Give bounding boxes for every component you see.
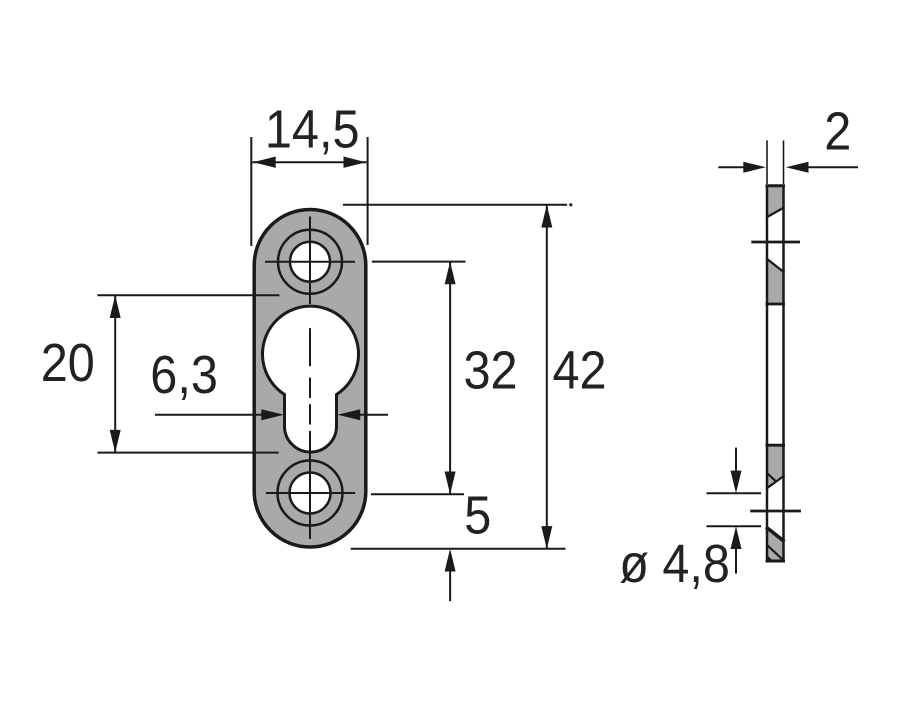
dimension 4,8 lower arrow bbox=[735, 549, 737, 574]
side view left edge bbox=[766, 185, 769, 562]
side view gray segment 2 bbox=[766, 258, 785, 304]
extension line bottom of plate (42/5) bbox=[351, 548, 566, 550]
svg-text:32: 32 bbox=[464, 339, 518, 400]
notch hatch line bbox=[768, 474, 777, 483]
extension line top of plate (42) bbox=[343, 204, 567, 206]
cap line above segment 3 bbox=[766, 444, 786, 447]
thick chamfer line d4 bbox=[766, 527, 785, 542]
bottom hole centerlines bbox=[266, 492, 355, 494]
svg-text:6,3: 6,3 bbox=[150, 344, 218, 405]
dimension 20 extension lines bbox=[97, 294, 279, 296]
dimension 4,8 upper arrow bbox=[735, 448, 737, 471]
chamfer line d1 bbox=[766, 207, 785, 217]
hatch stripe A bbox=[767, 545, 783, 560]
extension line bottom hole center (32/5) bbox=[371, 493, 464, 495]
side view bottom cap bbox=[766, 560, 786, 563]
dimension 14,5 line with arrows bbox=[253, 161, 367, 163]
front view plate body bbox=[254, 210, 366, 548]
dimension 42 line with arrows bbox=[546, 205, 548, 549]
dimension 2 right arrow bbox=[806, 166, 858, 168]
top hole bbox=[290, 242, 330, 282]
chamfer line d2 bbox=[766, 258, 785, 272]
keyhole dashed centerline bbox=[309, 328, 311, 451]
dimension 5 lower arrow bbox=[449, 571, 451, 601]
top hole counterbore circle bbox=[278, 230, 342, 294]
dimension 4,8 lower extension line bbox=[707, 525, 762, 527]
bottom hole bbox=[290, 473, 331, 514]
svg-text:14,5: 14,5 bbox=[265, 98, 360, 159]
dot at end of top extension line bbox=[569, 203, 572, 206]
top hole centerlines bbox=[265, 261, 355, 263]
dimension 32 line with arrows bbox=[449, 262, 451, 495]
chamfer line d3 bbox=[766, 476, 785, 489]
hatch stripe B bbox=[767, 556, 772, 561]
svg-text:ø 4,8: ø 4,8 bbox=[619, 533, 730, 594]
dimension 2 extension lines bbox=[766, 140, 768, 184]
dimension 4,8 upper extension line bbox=[707, 492, 762, 494]
dimension 2 left arrow bbox=[718, 166, 745, 168]
top hole tick (side view) bbox=[751, 241, 800, 244]
svg-text:42: 42 bbox=[553, 339, 607, 400]
side view top cap bbox=[766, 184, 786, 187]
dimension 20 line with arrows bbox=[114, 295, 116, 452]
svg-text:5: 5 bbox=[464, 484, 491, 545]
dimension 6,3 left arrow bbox=[155, 414, 262, 416]
side view gray segment 3 (above bottom hole) bbox=[766, 446, 785, 489]
dimension 14,5 extension lines bbox=[250, 137, 252, 246]
side view gray segment top bbox=[766, 186, 785, 218]
extension line top hole center (32) bbox=[372, 261, 466, 263]
dimension 6,3 right arrow bbox=[360, 414, 388, 416]
bottom hole tick (side view) bbox=[750, 510, 801, 513]
bottom hole counterbore circle bbox=[278, 461, 343, 526]
keyhole slot cutout bbox=[263, 306, 359, 452]
side view right edge bbox=[782, 185, 785, 562]
svg-text:20: 20 bbox=[41, 332, 95, 393]
cap line below segment 2 bbox=[766, 303, 786, 306]
svg-text:2: 2 bbox=[824, 100, 851, 161]
side view gray segment bottom bbox=[766, 527, 785, 560]
